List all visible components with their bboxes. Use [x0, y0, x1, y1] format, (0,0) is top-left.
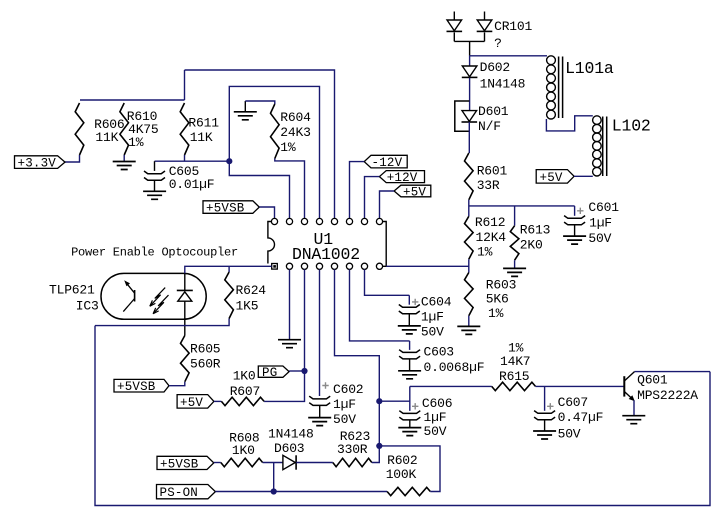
- wire +12V to pin7: [365, 177, 380, 219]
- wire pin16 to opto LED: [185, 266, 272, 273]
- capacitor C605: [154, 161, 156, 171]
- inductor L102 core: [603, 117, 607, 177]
- wire ground to R604: [245, 101, 274, 104]
- wire +5V flag to L102: [574, 175, 593, 177]
- wire R615 to Q601 base: [536, 385, 624, 387]
- diode D601: [462, 111, 477, 122]
- svg-text:Power Enable Optocoupler: Power Enable Optocoupler: [71, 246, 238, 260]
- wire R611 to node: [184, 155, 186, 161]
- inductor L102 coil: [593, 116, 602, 125]
- svg-text:50V: 50V: [588, 231, 611, 246]
- ground at C602: [308, 418, 331, 426]
- svg-text:0.47µF: 0.47µF: [558, 410, 604, 425]
- node junction dot PG: [301, 368, 307, 374]
- svg-text:+5V: +5V: [403, 185, 426, 199]
- svg-text:C601: C601: [588, 200, 619, 215]
- svg-text:C603: C603: [424, 344, 454, 359]
- svg-text:R607: R607: [230, 384, 260, 399]
- resistor R608: [221, 458, 263, 466]
- wire R602 loop to node: [379, 446, 440, 492]
- resistor R611: [180, 103, 189, 155]
- wire D603 to R623: [296, 462, 333, 464]
- svg-text:D602: D602: [480, 60, 510, 75]
- svg-text:1µF: 1µF: [589, 215, 612, 230]
- svg-text:1K5: 1K5: [236, 299, 259, 314]
- svg-text:+5VSB: +5VSB: [160, 457, 199, 471]
- svg-text:IC3: IC3: [76, 298, 99, 313]
- resistor R605: [181, 336, 190, 382]
- wire +5V to R607: [214, 400, 222, 402]
- net flag PS-ON: [157, 485, 216, 499]
- wire feedback rail: [95, 326, 710, 506]
- svg-text:24K3: 24K3: [280, 125, 310, 140]
- svg-text:14K7: 14K7: [500, 354, 530, 369]
- svg-text:100K: 100K: [386, 467, 417, 482]
- resistor R604: [271, 104, 280, 159]
- resistor R612: [465, 216, 474, 259]
- power flag +5V at R607: [177, 395, 214, 409]
- svg-text:+3.3V: +3.3V: [18, 157, 57, 171]
- resistor R602: [387, 487, 430, 495]
- opto phototransistor: [134, 290, 136, 302]
- svg-text:50V: 50V: [421, 324, 444, 339]
- net flag PG: [258, 366, 289, 377]
- wire R608 to D603: [263, 462, 283, 464]
- opto LED: [177, 289, 193, 291]
- svg-text:R603: R603: [486, 277, 516, 292]
- wire pin11 to C603: [350, 269, 410, 341]
- wire pin14 to PG node: [264, 269, 304, 401]
- svg-text:11K: 11K: [95, 130, 118, 145]
- svg-text:TLP621: TLP621: [49, 283, 95, 298]
- svg-text:12K4: 12K4: [476, 230, 507, 245]
- wire R611 up: [184, 70, 186, 100]
- capacitor C601: [574, 206, 576, 216]
- resistor R615: [492, 382, 536, 390]
- node junction dot A: [226, 158, 232, 164]
- wire R610 to ground: [123, 155, 125, 162]
- wire R613 to ground: [514, 260, 516, 268]
- wire node to C601: [469, 205, 575, 207]
- svg-text:DNA1002: DNA1002: [292, 245, 360, 264]
- svg-text:1N4148: 1N4148: [480, 77, 526, 92]
- svg-text:560R: 560R: [190, 357, 221, 372]
- op-amp U1 bottom pin row: [286, 263, 292, 269]
- resistor R606: [75, 103, 84, 155]
- power flag +5VSB top: [203, 201, 259, 214]
- svg-text:D603: D603: [274, 441, 304, 456]
- svg-text:?: ?: [494, 36, 502, 51]
- power flag -12V: [364, 155, 407, 168]
- svg-text:33R: 33R: [477, 178, 500, 193]
- wire Q601 emitter to ground: [633, 400, 635, 415]
- svg-text:R602: R602: [387, 453, 417, 468]
- svg-text:2K0: 2K0: [520, 238, 543, 253]
- wire pin15 to ground: [289, 269, 291, 339]
- power flag +5VSB mid: [114, 379, 169, 392]
- wire D602 to D601: [469, 78, 471, 111]
- wire C607 tap: [544, 386, 546, 410]
- wire +5V to pin8: [380, 191, 395, 218]
- ground at Q601 emitter: [622, 416, 645, 424]
- strap around D601 (N/F link): [455, 101, 470, 131]
- wire L101a bottom to L102 top: [546, 116, 592, 131]
- ground at R604 input: [244, 101, 246, 112]
- ground at C607: [533, 431, 556, 439]
- svg-text:1%: 1%: [488, 306, 504, 321]
- wire pin13 to C602: [319, 269, 321, 396]
- wire R624 top: [228, 266, 230, 272]
- diode D603: [283, 455, 295, 469]
- opto light arrow 2: [153, 295, 168, 314]
- pin 1 square pad U1: [272, 264, 278, 270]
- capacitor C607: [534, 411, 555, 414]
- resistor R610: [120, 103, 129, 155]
- resistor R623: [333, 458, 372, 466]
- svg-text:1%: 1%: [128, 135, 144, 150]
- capacitor C604: [408, 295, 410, 304]
- wire +5VSB to pin1: [259, 207, 274, 218]
- wire pin12 jog down: [335, 269, 380, 401]
- svg-text:1N4148: 1N4148: [268, 427, 314, 442]
- svg-text:1µF: 1µF: [421, 309, 444, 324]
- wire R604 to pin3: [275, 159, 305, 219]
- wire R624 bottom to feedback rail: [95, 319, 229, 326]
- inductor L101a core: [559, 57, 563, 119]
- wire R603 to ground: [468, 316, 470, 327]
- ground at C606: [398, 428, 421, 436]
- wire R601 to node: [468, 200, 470, 217]
- node junction dot C: [376, 443, 382, 449]
- wire R612 to R603 junction: [468, 259, 470, 272]
- wire node to L101a: [470, 55, 547, 57]
- svg-text:-12V: -12V: [372, 156, 403, 170]
- wire node B to C606: [379, 400, 410, 402]
- svg-text:0.01µF: 0.01µF: [169, 177, 215, 192]
- svg-text:1K0: 1K0: [233, 369, 256, 384]
- optocoupler IC3 body: [101, 273, 206, 319]
- svg-text:D601: D601: [478, 104, 509, 119]
- wire top bus R606-R611: [80, 99, 185, 101]
- wire top to pin5: [185, 70, 335, 218]
- diode CR101 (pair, left): [453, 12, 455, 21]
- power flag +3.3V: [15, 156, 66, 169]
- diode CR101 (pair, right): [484, 12, 486, 21]
- svg-text:+5VSB: +5VSB: [117, 380, 156, 394]
- svg-text:R611: R611: [188, 116, 219, 131]
- wire pin10 to C604: [365, 269, 410, 295]
- svg-text:C607: C607: [558, 395, 588, 410]
- wire node down loop to pin2: [229, 161, 289, 218]
- svg-text:1µF: 1µF: [333, 397, 356, 412]
- ground at R613: [503, 268, 526, 276]
- ground at C604: [398, 326, 421, 334]
- svg-text:PG: PG: [262, 366, 277, 380]
- svg-text:R605: R605: [190, 342, 220, 357]
- diode D602: [462, 66, 477, 77]
- svg-text:+12V: +12V: [387, 171, 418, 185]
- wire D601 to R601: [468, 122, 470, 153]
- svg-text:R613: R613: [520, 222, 550, 237]
- svg-text:L102: L102: [612, 116, 651, 135]
- svg-text:MPS2222A: MPS2222A: [637, 388, 698, 403]
- capacitor C602: [309, 396, 330, 399]
- capacitor C606: [399, 411, 420, 414]
- svg-text:5K6: 5K6: [486, 292, 509, 307]
- ground at C605: [143, 191, 166, 199]
- inductor L101a coil: [547, 56, 556, 65]
- svg-text:C602: C602: [333, 382, 363, 397]
- power flag +5V at U1: [394, 185, 431, 197]
- svg-text:Q601: Q601: [637, 372, 668, 387]
- wire C606 to R615: [409, 386, 411, 411]
- svg-text:0.0068µF: 0.0068µF: [424, 360, 485, 375]
- svg-text:1%: 1%: [280, 140, 296, 155]
- U1 body left edge with notch: [268, 222, 275, 264]
- svg-text:1µF: 1µF: [424, 410, 447, 425]
- resistor R607: [221, 397, 264, 405]
- wire CR101 join: [454, 40, 484, 42]
- svg-text:1%: 1%: [477, 245, 493, 260]
- power flag +12V: [379, 171, 424, 183]
- svg-text:1K0: 1K0: [232, 443, 255, 458]
- wire CR101 to D602 node: [469, 41, 471, 55]
- ground at C601: [563, 236, 586, 244]
- svg-text:L101a: L101a: [565, 59, 614, 78]
- svg-text:330R: 330R: [337, 442, 368, 457]
- wire node B to node C: [378, 401, 380, 446]
- ground at R603: [457, 326, 480, 334]
- op-amp U1 top pin row: [271, 218, 277, 224]
- svg-text:50V: 50V: [333, 412, 356, 427]
- wire Q601 collector to rail: [635, 371, 711, 373]
- power flag +5VSB bottom: [157, 456, 214, 469]
- svg-text:C604: C604: [421, 295, 452, 310]
- resistor R601: [465, 153, 474, 200]
- wire PG to node: [289, 370, 304, 372]
- ground at R610: [113, 162, 136, 170]
- ground at C603: [398, 371, 421, 379]
- wire node up loop to pin4: [229, 86, 319, 218]
- svg-text:PS-ON: PS-ON: [160, 486, 199, 500]
- node junction dot PS-ON/D603: [271, 488, 277, 494]
- svg-text:50V: 50V: [424, 424, 447, 439]
- wire -12V to pin6: [350, 162, 365, 219]
- svg-text:CR101: CR101: [494, 19, 532, 34]
- wire R606 to +3.3V: [65, 155, 80, 162]
- wire C606 to R615 left: [410, 385, 492, 387]
- wire pin9 to R612 node: [386, 265, 469, 267]
- svg-text:N/F: N/F: [478, 119, 501, 134]
- node junction dot B: [376, 398, 382, 404]
- power flag +5V at L102: [536, 170, 574, 184]
- svg-text:+5V: +5V: [540, 171, 563, 185]
- transistor Q601: [623, 376, 625, 396]
- svg-text:50V: 50V: [558, 426, 581, 441]
- opto light arrow 1: [150, 288, 165, 307]
- svg-text:+5V: +5V: [180, 396, 203, 410]
- wire R613 tap: [514, 206, 516, 226]
- svg-text:+5VSB: +5VSB: [206, 202, 245, 216]
- ground below U1 pin15: [278, 340, 301, 348]
- wire opto LED to R605: [184, 301, 186, 335]
- svg-text:R615: R615: [499, 369, 529, 384]
- resistor R624: [225, 272, 234, 319]
- svg-text:R612: R612: [475, 215, 505, 230]
- capacitor C603: [409, 341, 411, 350]
- svg-text:R601: R601: [477, 163, 508, 178]
- wire +5VSB to R605: [169, 382, 185, 386]
- wire C605 node: [155, 160, 230, 162]
- resistor R603: [465, 273, 474, 316]
- U1 body right edge: [383, 222, 387, 267]
- resistor R613: [510, 226, 519, 261]
- svg-text:R624: R624: [236, 283, 267, 298]
- svg-text:R604: R604: [280, 110, 311, 125]
- wire R623 to node: [372, 446, 380, 463]
- wire PS-ON to R602: [215, 491, 387, 493]
- wire +5VSB to R608: [214, 462, 221, 464]
- wire D603 anode to PS-ON: [273, 463, 275, 492]
- svg-text:11K: 11K: [190, 130, 213, 145]
